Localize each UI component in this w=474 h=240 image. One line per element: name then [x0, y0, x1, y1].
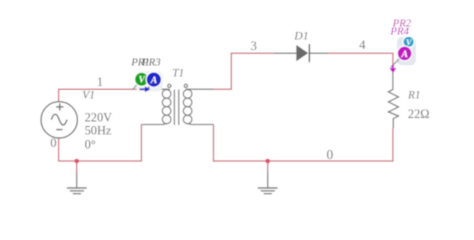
probe PR2/PR4 shadow: [397, 37, 416, 66]
wire: secondary top gray lead: [186, 88, 214, 90]
svg-text:A: A: [400, 49, 407, 60]
svg-text:1: 1: [97, 75, 103, 89]
wire: gray lead into R1: [392, 67, 394, 90]
svg-text:3: 3: [250, 39, 256, 53]
svg-text:T1: T1: [172, 68, 184, 80]
svg-text:0: 0: [326, 147, 333, 162]
wire: ground 1 stub: [76, 161, 78, 173]
wire: ground 2 stub: [267, 161, 269, 173]
wire: V1 bottom lead down: [58, 138, 60, 162]
svg-text:0: 0: [50, 136, 56, 150]
ground (middle): [258, 188, 278, 194]
ground (left): [67, 188, 87, 194]
svg-text:A: A: [150, 75, 157, 86]
wire: riser to transformer primary bottom: [140, 125, 142, 162]
wire: top-left rail (node 1): [58, 88, 146, 90]
probe PR2 (teal V): [403, 36, 414, 47]
resistor R1: [388, 89, 398, 128]
svg-text:V1: V1: [82, 90, 95, 102]
svg-text:PR4: PR4: [389, 26, 409, 38]
svg-text:0°: 0°: [85, 137, 96, 151]
svg-text:V: V: [139, 75, 146, 85]
svg-text:R1: R1: [407, 90, 421, 102]
probe needle PR1: [133, 84, 138, 90]
junction dot node 0 left: [74, 159, 79, 164]
wire: secondary top red to riser: [214, 88, 232, 90]
AC source V1: [41, 102, 77, 138]
wire: bottom-left rail: [58, 160, 142, 162]
transformer T1: [162, 84, 192, 125]
probe PR1 (green V): [135, 72, 149, 86]
probe needle PR4: [391, 59, 400, 68]
left pin dot: [168, 84, 171, 87]
svg-text:D1: D1: [293, 28, 308, 42]
wire: diode out gray: [310, 52, 328, 54]
wire: riser up to node 3 rail: [230, 53, 232, 90]
right pin dot: [184, 84, 187, 87]
svg-text:50Hz: 50Hz: [85, 124, 112, 138]
wire: node 3 rail to diode: [231, 52, 274, 54]
wire: gray secondary bottom lead: [191, 124, 213, 126]
probe PR3 (blue A): [146, 72, 161, 87]
wire: R1 bottom red: [392, 129, 394, 162]
svg-text:PR3: PR3: [141, 56, 161, 68]
svg-text:220V: 220V: [85, 110, 113, 124]
wire: node 4 rail red: [328, 52, 394, 54]
diode D1: [296, 44, 310, 62]
wire: riser from secondary bottom: [213, 125, 215, 162]
wire: gray segment into transformer left pin: [146, 88, 169, 90]
probe PR1/PR3 shadow: [136, 71, 163, 92]
wire: V1 top lead up to top rail: [58, 89, 60, 102]
wire: gray primary bottom lead: [141, 124, 163, 126]
wire: bottom-right rail (node 0): [213, 160, 394, 162]
core lines: [173, 90, 175, 125]
primary coil: [162, 90, 171, 99]
junction dot node 0 middle: [265, 159, 270, 164]
probe PR4 (magenta A): [397, 46, 412, 61]
current arrow PR4 (magenta, downward): [390, 65, 397, 73]
svg-text:22Ω: 22Ω: [408, 107, 430, 121]
wire: drop from node 4 corner: [392, 53, 394, 66]
probe needle PR3: [146, 86, 150, 91]
svg-text:4: 4: [359, 38, 366, 52]
current arrow PR3 (blue, rightward): [140, 87, 151, 93]
secondary coil: [183, 90, 192, 99]
